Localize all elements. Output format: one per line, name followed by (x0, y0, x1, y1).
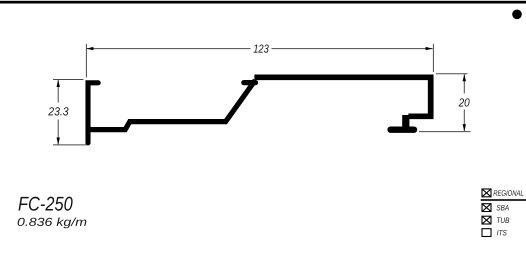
svg-text:FC-250: FC-250 (18, 194, 73, 216)
ext line left (x=86) (85, 44, 87, 78)
svg-text:20: 20 (458, 96, 470, 109)
svg-text:SBA: SBA (496, 203, 509, 212)
legend separator line (481, 199, 526, 201)
svg-text:0.836 kg/m: 0.836 kg/m (17, 216, 87, 229)
dim line x=58.2 (57, 80, 59, 103)
legend (482, 189, 491, 237)
arrow bottom of 23.3 (57, 138, 60, 145)
profile FC-250 cross-section (88, 77, 431, 143)
dim line x=464.3 (463, 74, 465, 93)
svg-text:123: 123 (253, 43, 269, 56)
arrow left of 123 (86, 47, 93, 50)
T foot (391, 126, 414, 132)
small lip at diagonal top (244, 80, 256, 85)
svg-text:ITS: ITS (497, 228, 508, 237)
arrow top of 23.3 (57, 80, 60, 87)
checkbox ITS (empty) (482, 229, 491, 237)
checkbox TUB (checked) (482, 216, 491, 224)
svg-text:REGIONAL: REGIONAL (493, 189, 524, 198)
lower web with step and diagonal (89, 80, 256, 129)
checkbox SBA (checked) (482, 204, 491, 212)
ext line bottom (y=144.9) (53, 144, 87, 146)
arrow top of 20 (463, 74, 466, 81)
dimension 20 (419, 74, 471, 132)
svg-text:TUB: TUB (496, 216, 509, 225)
ext line right (x=433) (432, 44, 434, 72)
arrow bottom of 20 (463, 124, 466, 131)
ext line bottom (y=131.6) (419, 131, 471, 133)
top border line (0, 1, 526, 4)
svg-text:23.3: 23.3 (47, 105, 69, 118)
ext line top (y=73.7) (436, 73, 468, 75)
corner dot (512, 10, 522, 20)
ext line top (y=79.5) (53, 79, 83, 81)
dimension 123 (86, 44, 433, 78)
top web, right bar and bottom arm (254, 77, 430, 116)
left vertical bar with top lip (88, 83, 98, 143)
dim line y=48.6 (86, 48, 250, 50)
dimension 23.3 (53, 80, 87, 145)
checkbox REGIONAL (checked) (482, 189, 491, 197)
arrow right of 123 (426, 47, 433, 50)
screw-boss stub (402, 115, 409, 130)
